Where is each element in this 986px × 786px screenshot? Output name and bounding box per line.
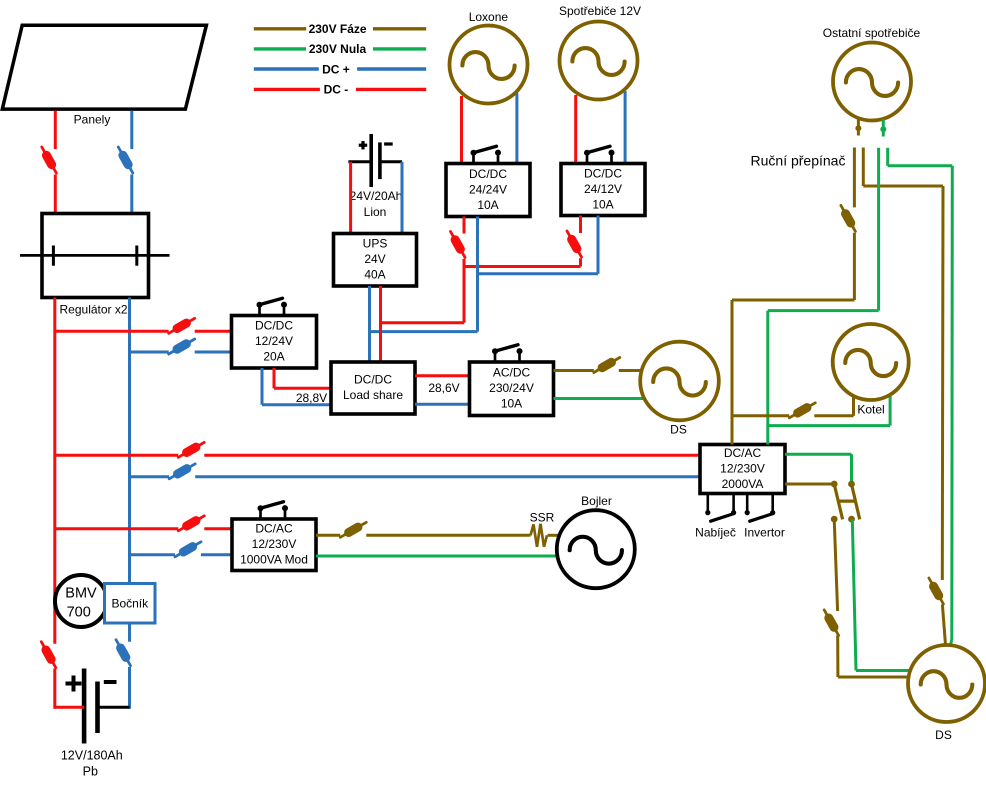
svg-text:DC/AC: DC/AC [255, 522, 293, 536]
svg-text:Pb: Pb [83, 765, 98, 779]
svg-text:Spotřebiče 12V: Spotřebiče 12V [559, 4, 641, 18]
svg-text:Lion: Lion [364, 205, 387, 219]
svg-text:SSR: SSR [530, 511, 555, 525]
svg-text:UPS: UPS [363, 237, 388, 251]
svg-text:40A: 40A [364, 268, 385, 282]
svg-text:2000VA: 2000VA [722, 477, 764, 491]
svg-text:20A: 20A [263, 350, 284, 364]
svg-text:Ostatní spotřebiče: Ostatní spotřebiče [823, 26, 921, 40]
svg-text:230V Nula: 230V Nula [309, 42, 367, 56]
svg-text:DC +: DC + [322, 62, 350, 76]
svg-text:Bojler: Bojler [581, 494, 612, 508]
svg-text:24V/20Ah: 24V/20Ah [350, 189, 403, 203]
svg-text:Kotel: Kotel [857, 402, 884, 416]
svg-text:Invertor: Invertor [744, 526, 785, 540]
svg-text:Bočník: Bočník [111, 597, 149, 611]
svg-text:DC/DC: DC/DC [255, 319, 293, 333]
svg-text:Loxone: Loxone [469, 10, 509, 24]
svg-text:28,8V: 28,8V [296, 391, 327, 405]
svg-text:Load share: Load share [343, 388, 403, 402]
svg-text:DC/DC: DC/DC [354, 373, 392, 387]
svg-text:DC/DC: DC/DC [584, 166, 622, 180]
svg-text:10A: 10A [592, 198, 613, 212]
svg-text:700: 700 [67, 605, 91, 621]
svg-text:24V: 24V [364, 252, 385, 266]
svg-text:230/24V: 230/24V [489, 381, 534, 395]
svg-text:230V Fáze: 230V Fáze [309, 22, 367, 36]
svg-text:Ruční přepínač: Ruční přepínač [751, 153, 846, 169]
svg-text:12/230V: 12/230V [252, 537, 297, 551]
svg-text:28,6V: 28,6V [428, 381, 459, 395]
svg-text:BMV: BMV [65, 586, 97, 602]
svg-text:DS: DS [935, 728, 952, 742]
svg-text:Nabíječ: Nabíječ [695, 526, 736, 540]
svg-text:DS: DS [670, 423, 687, 437]
svg-text:Panely: Panely [74, 113, 111, 127]
svg-text:24/24V: 24/24V [469, 182, 507, 196]
svg-text:10A: 10A [477, 198, 498, 212]
svg-text:1000VA Mod: 1000VA Mod [240, 553, 308, 567]
svg-text:Regulátor x2: Regulátor x2 [60, 303, 128, 317]
svg-text:DC/AC: DC/AC [724, 446, 762, 460]
svg-text:DC -: DC - [324, 83, 349, 97]
svg-text:24/12V: 24/12V [584, 182, 622, 196]
svg-text:DC/DC: DC/DC [469, 167, 507, 181]
svg-text:12/230V: 12/230V [720, 461, 765, 475]
svg-text:AC/DC: AC/DC [493, 366, 531, 380]
svg-text:12/24V: 12/24V [255, 334, 293, 348]
svg-text:10A: 10A [501, 397, 522, 411]
svg-text:12V/180Ah: 12V/180Ah [61, 749, 123, 763]
